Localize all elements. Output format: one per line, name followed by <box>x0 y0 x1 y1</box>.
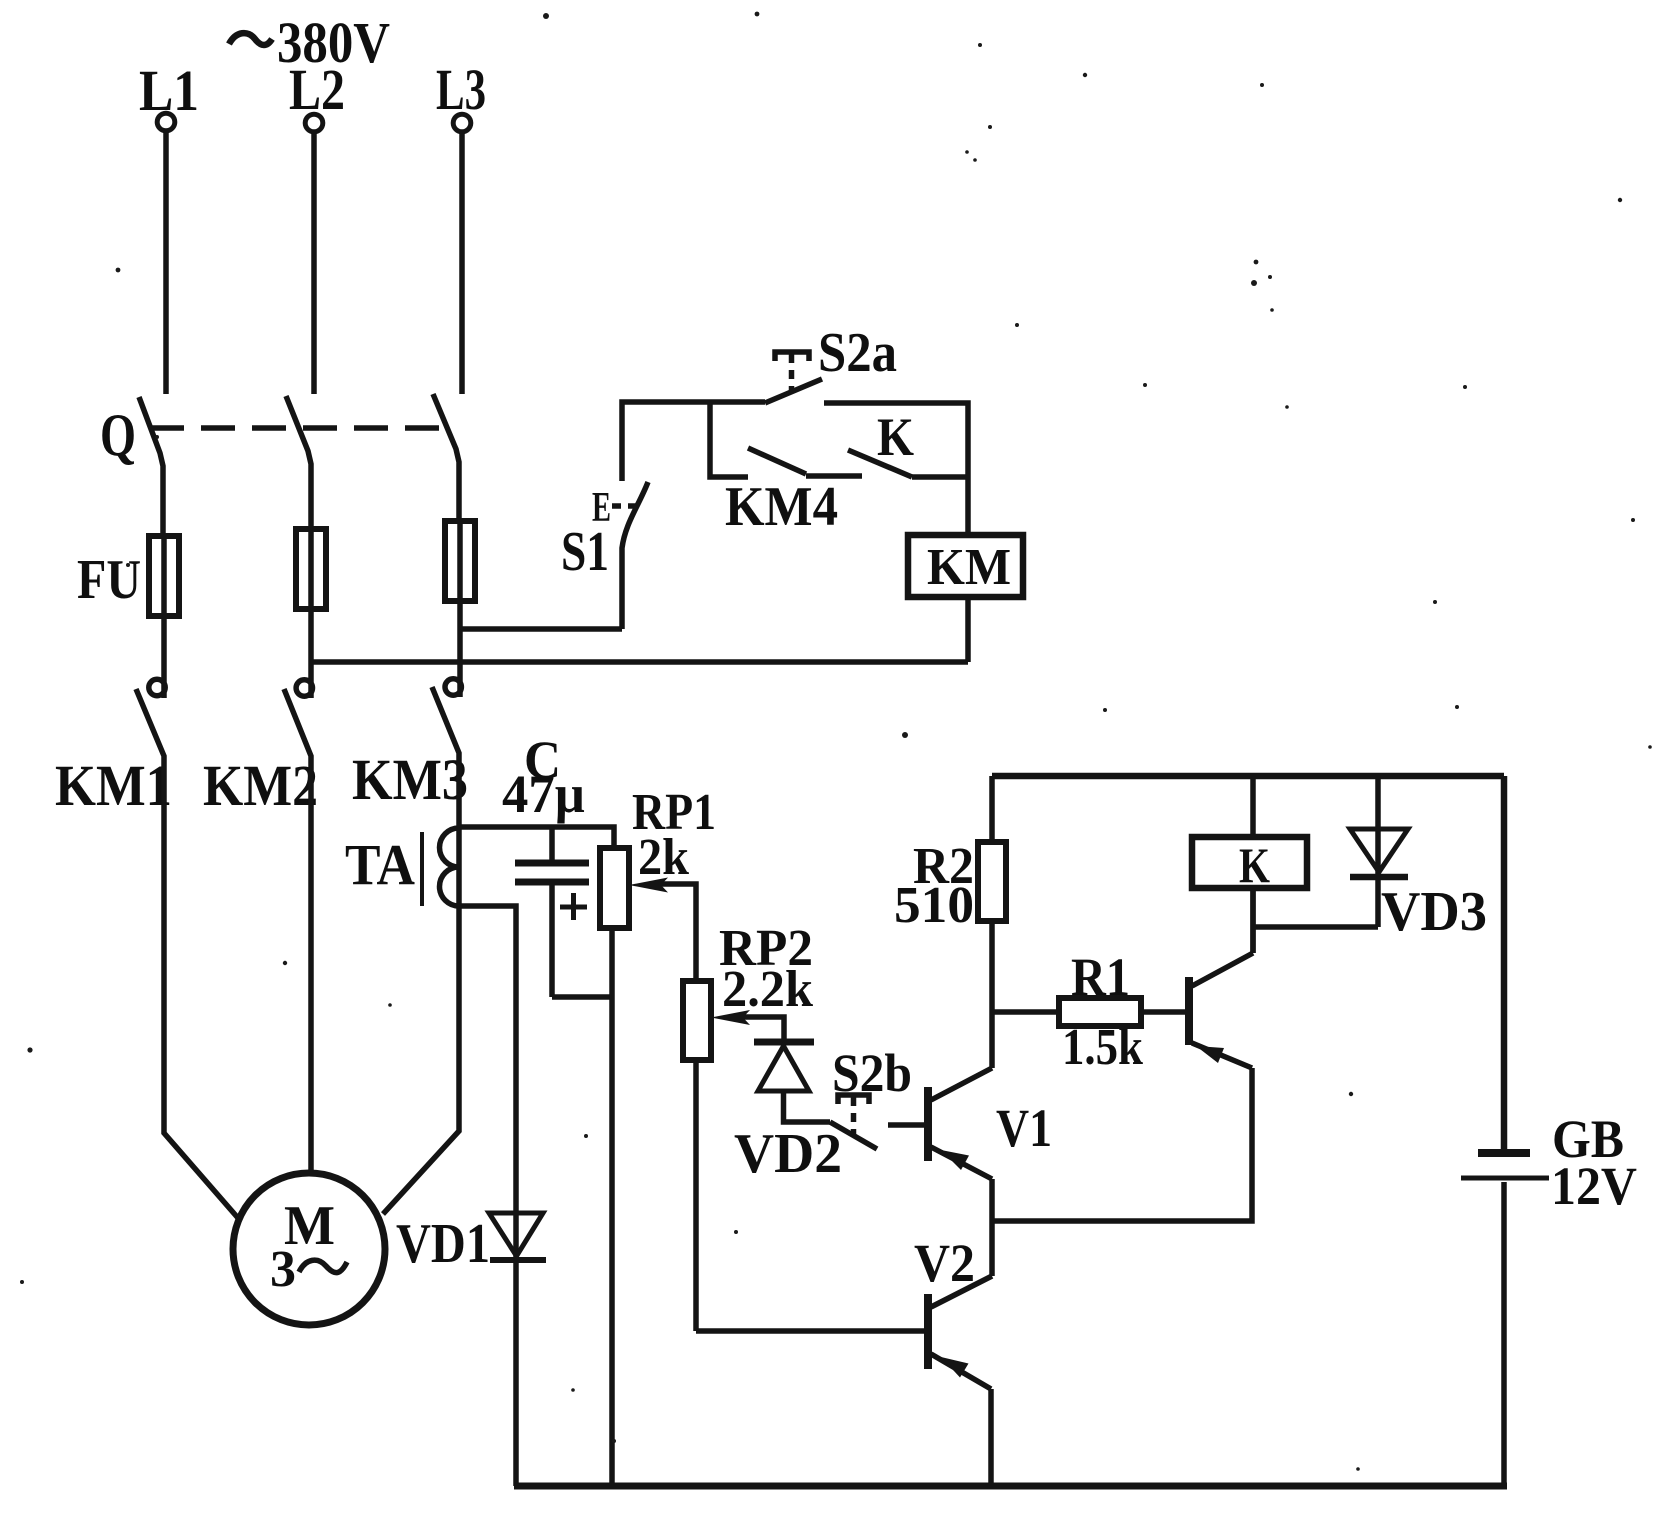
wire right rail <box>1501 776 1508 1150</box>
wire TA secondary top to RP1 <box>459 827 614 848</box>
svg-text:S2a: S2a <box>818 322 897 384</box>
switch Q pole 1 <box>100 397 163 536</box>
fuse FU phase 3 <box>445 521 475 601</box>
wire V2 emitter to bottom rail <box>988 1389 994 1486</box>
svg-text:47µ: 47µ <box>502 764 585 824</box>
svg-text:E: E <box>592 485 611 531</box>
wire L3 tap to S1 <box>460 626 622 632</box>
motor M 3~ <box>233 1173 385 1325</box>
transistor V1 <box>928 1068 1052 1179</box>
switch Q pole 3 <box>433 394 459 521</box>
transistor V2 <box>914 1233 992 1389</box>
switch Q pole 2 <box>286 396 311 529</box>
wire TA secondary bottom to VD1 <box>459 906 516 1258</box>
contact KM4 <box>710 402 862 538</box>
wire control branch top <box>622 402 765 481</box>
switch S1 <box>561 482 648 629</box>
switch S2b <box>830 1043 912 1149</box>
svg-text:2k: 2k <box>638 829 689 886</box>
svg-text:KM3: KM3 <box>352 747 468 812</box>
diode VD3 <box>1350 776 1487 943</box>
relay coil K <box>1192 776 1307 953</box>
svg-text:Q: Q <box>100 402 136 468</box>
wire RP2 bottom to V2 base <box>696 1328 925 1334</box>
wire RP1 bottom to bottom rail <box>609 997 615 1486</box>
node L1 terminal <box>139 58 199 131</box>
wire V1 collector to R2/R1 junction <box>989 921 995 1068</box>
svg-text:VD2: VD2 <box>734 1123 842 1185</box>
wire driver collector to K coil <box>1250 888 1256 953</box>
resistor R1 1.5k <box>992 947 1185 1076</box>
potentiometer RP1 2k <box>600 784 716 997</box>
wire L2 tap to KM coil bottom <box>311 659 968 665</box>
contactor coil KM <box>908 535 1023 662</box>
svg-text:VD1: VD1 <box>396 1213 490 1275</box>
node L3 terminal <box>436 57 486 132</box>
wire emitter rail <box>992 1068 1252 1221</box>
svg-text:KM2: KM2 <box>203 753 318 818</box>
fuse FU phase 1 <box>77 536 179 616</box>
current transformer TA <box>345 828 459 906</box>
contact KM2 <box>203 609 318 1173</box>
wire top rail <box>992 773 1504 780</box>
svg-text:TA: TA <box>345 832 415 897</box>
contact KM3 <box>352 601 468 1214</box>
contact KM1 <box>55 616 238 1218</box>
svg-text:12V: 12V <box>1551 1156 1637 1216</box>
node L2 terminal <box>289 57 345 132</box>
svg-text:V1: V1 <box>996 1098 1052 1158</box>
wire S2a to right corner <box>824 403 968 535</box>
fuse FU phase 2 <box>296 529 326 609</box>
wire C bottom to RP1 bottom <box>552 994 611 1000</box>
switch Q linkage (dashed) <box>150 425 448 431</box>
svg-text:FU: FU <box>77 549 141 611</box>
wire K coil bottom to VD3 <box>1253 924 1378 930</box>
wire bottom rail <box>514 1483 1507 1490</box>
switch S2a <box>765 322 897 403</box>
wire V1 emitter down <box>989 1179 995 1276</box>
svg-text:3: 3 <box>270 1241 296 1298</box>
battery GB 12V <box>1461 1109 1637 1486</box>
svg-text:510: 510 <box>894 877 974 934</box>
svg-text:V2: V2 <box>914 1233 975 1293</box>
label ~380V <box>229 10 390 75</box>
wire S2b to V1 base <box>888 1122 925 1128</box>
wire L2 drop <box>311 133 317 394</box>
svg-text:VD3: VD3 <box>1381 881 1487 943</box>
wire L1 drop <box>163 132 169 394</box>
transistor (driver, unlabeled) <box>1189 953 1253 1068</box>
capacitor C 47u <box>502 730 589 997</box>
svg-text:KM1: KM1 <box>55 753 172 818</box>
svg-text:KM4: KM4 <box>725 476 838 538</box>
potentiometer RP2 2.2k <box>683 920 813 1331</box>
wire L3 drop <box>459 133 465 394</box>
svg-text:2.2k: 2.2k <box>722 961 813 1018</box>
svg-text:KM: KM <box>927 539 1011 596</box>
diode VD1 <box>396 1213 546 1486</box>
diode VD2 <box>734 1042 842 1185</box>
svg-text:K: K <box>877 407 914 467</box>
resistor R2 510 <box>894 776 1006 934</box>
contact K (relay) <box>848 407 968 477</box>
svg-text:K: K <box>1239 837 1270 893</box>
